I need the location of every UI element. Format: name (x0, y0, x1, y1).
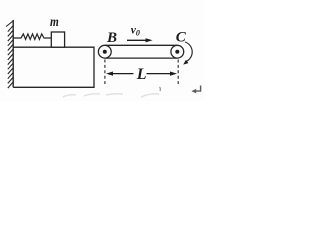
dimension arrow left (106, 72, 134, 76)
spring (14, 34, 52, 40)
wall (6, 20, 13, 88)
svg-text:C: C (176, 30, 187, 46)
pulley C axle dot (175, 50, 179, 54)
apostrophe artifact (159, 87, 162, 91)
rotation arrow at C (183, 42, 192, 65)
svg-text:B: B (106, 30, 117, 46)
v0 arrow (127, 38, 153, 42)
dimension arrow right (147, 72, 178, 76)
svg-text:v0: v0 (131, 25, 140, 38)
belt bottom line (105, 57, 178, 59)
block m (51, 32, 64, 47)
platform (cart) rectangle (13, 47, 94, 87)
dashed line under C (177, 60, 179, 85)
svg-text:L: L (136, 66, 147, 83)
dashed line under B (104, 60, 106, 85)
svg-text:m: m (50, 15, 59, 30)
faint scan artifacts (63, 94, 159, 97)
belt top line (105, 44, 178, 46)
pulley B axle dot (103, 50, 107, 54)
pulley C circle (171, 45, 184, 58)
return mark (191, 86, 200, 94)
pulley B circle (98, 45, 111, 58)
